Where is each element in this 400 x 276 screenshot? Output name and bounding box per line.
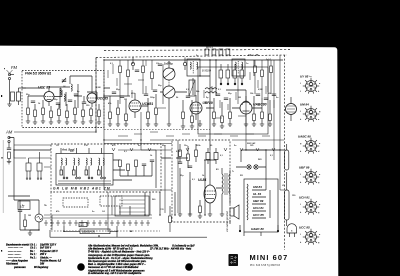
coil group LB <box>73 158 81 179</box>
resistor right of switch <box>119 160 122 167</box>
top B+ rail wire <box>104 59 283 61</box>
punch hole right <box>185 263 193 271</box>
svg-text:UCC 85: UCC 85 <box>299 226 310 230</box>
svg-text:20Ω 3,4F: 20Ω 3,4F <box>247 142 256 145</box>
resistor <box>135 160 138 167</box>
ground <box>28 233 32 235</box>
tube UBF89 <box>190 95 213 120</box>
contact row long bus <box>44 215 152 218</box>
resistor <box>187 154 190 161</box>
resistor <box>98 110 101 117</box>
junction dots bottom row <box>63 230 132 236</box>
tone switch box <box>63 198 88 207</box>
bottom long wire <box>50 226 207 237</box>
wire <box>30 230 39 233</box>
FM oscillator coil <box>60 88 61 95</box>
dial lamp cluster 4x <box>205 46 230 55</box>
mains wires <box>244 232 261 236</box>
resistor mains dropper <box>206 148 218 164</box>
test point <box>277 225 279 232</box>
pinout UCC 85 <box>299 226 321 245</box>
wires AF <box>176 144 284 190</box>
tube UCC85 (FM triode a) <box>38 86 54 107</box>
AM antenna coil cluster <box>14 150 51 179</box>
svg-text:100p: 100p <box>150 97 155 99</box>
main schematic group <box>5 65 108 164</box>
dashed chassis outline top <box>96 55 287 58</box>
dashed chassis outline right <box>284 55 286 250</box>
dial lamps <box>247 165 258 169</box>
coil group KB <box>98 158 106 179</box>
output transformer <box>216 168 230 200</box>
svg-text:1M: 1M <box>124 99 127 101</box>
svg-text:1M: 1M <box>238 97 241 99</box>
small box lower left <box>18 201 30 210</box>
resistor R in FM box <box>27 108 30 115</box>
notes text middle <box>87 245 195 276</box>
svg-text:UL 84: UL 84 <box>253 192 261 196</box>
svg-text:0,5M: 0,5M <box>258 89 263 91</box>
brand logo box <box>229 254 239 266</box>
svg-text:UCC 85: UCC 85 <box>253 213 264 217</box>
wires IF horizontals <box>104 76 262 108</box>
dashed outer boundary top <box>104 50 290 51</box>
ground <box>188 214 192 216</box>
capacitor <box>18 210 22 212</box>
dashed box AF module <box>172 140 230 222</box>
svg-text:UM 84: UM 84 <box>300 103 309 107</box>
wire harness extra <box>14 55 284 232</box>
solid box wave switch lower <box>115 196 149 216</box>
resistor <box>127 164 130 171</box>
fuse vertical <box>285 144 289 170</box>
svg-text:Phil. 643 6.58 Tg 6807/: Phil. 643 6.58 Tg 6807/03 <box>250 265 281 267</box>
svg-text:5Ω: 5Ω <box>240 175 243 177</box>
wire B+ feed FM <box>22 76 92 88</box>
IF transformer can 1 <box>187 59 200 76</box>
tube UCH81 <box>129 93 153 118</box>
capacitor <box>150 160 154 162</box>
svg-text:UCC85: UCC85 <box>98 97 109 101</box>
svg-text:0,5M: 0,5M <box>176 151 181 153</box>
detector module solid box <box>198 53 268 134</box>
hanging component <box>183 58 186 71</box>
svg-text:UCH81: UCH81 <box>142 102 153 106</box>
page crease line left <box>2 140 4 213</box>
ground <box>208 214 212 216</box>
dashed switch lower boundary <box>51 192 160 231</box>
wires IF verticals <box>110 94 270 126</box>
svg-text:4x 0,1: 4x 0,1 <box>206 46 213 49</box>
svg-text:UBF89: UBF89 <box>203 101 213 105</box>
svg-text:UM 84: UM 84 <box>253 185 262 189</box>
svg-text:HF u. ZF: HF u. ZF <box>248 53 259 57</box>
resistor <box>34 110 37 117</box>
svg-text:AM: AM <box>5 130 13 135</box>
svg-text:UBF 89: UBF 89 <box>299 166 310 170</box>
svg-text:UBF 89: UBF 89 <box>253 199 264 203</box>
dashed chassis outline left <box>95 58 97 132</box>
interstage wires FM <box>60 84 97 108</box>
ballast resistor B50029-GN <box>80 229 110 234</box>
resistor <box>82 110 85 117</box>
FM antenna terminal <box>7 65 18 97</box>
dashed box FM tuner FMA 5/2 <box>22 71 104 128</box>
ground <box>178 214 182 216</box>
svg-text:FM: FM <box>11 65 18 70</box>
svg-text:68 Regelung: 68 Regelung <box>34 266 49 269</box>
coil group GR <box>60 158 68 179</box>
AM antenna terminal <box>5 130 13 149</box>
capacitor <box>188 166 192 168</box>
value labels scatter <box>22 55 296 217</box>
component row in module <box>219 70 223 78</box>
coil <box>71 84 72 91</box>
wire <box>28 115 99 123</box>
svg-text:UCH 81: UCH 81 <box>253 206 264 210</box>
resistor <box>8 152 11 159</box>
trimmer capacitor <box>62 78 66 83</box>
svg-text:UABC80: UABC80 <box>253 103 267 107</box>
resistor lower mid <box>169 206 172 232</box>
legend table bottom left <box>5 244 62 269</box>
pinout UCH 81 <box>299 196 321 215</box>
wire <box>28 90 62 97</box>
capacitor <box>178 162 182 164</box>
tuning gang section 1 <box>163 62 175 81</box>
coil group MB <box>85 158 93 179</box>
margin specks <box>1 68 5 252</box>
test point <box>239 225 241 232</box>
VDR ballast vertical <box>285 172 290 226</box>
heater wire <box>252 190 270 218</box>
svg-text:B·50034: B·50034 <box>202 70 212 73</box>
ground <box>220 214 224 216</box>
solid box coil pack <box>56 154 113 186</box>
svg-text:GR LB MB KB2 AB1 TM: GR LB MB KB2 AB1 TM <box>53 186 111 190</box>
resistor <box>24 220 27 227</box>
hanging component <box>131 58 134 71</box>
mains plug <box>287 224 297 237</box>
svg-text:von außen gesehen: von außen gesehen <box>226 210 229 232</box>
wire switch unit feeds <box>61 148 132 180</box>
tube UM84 magic eye <box>286 97 297 121</box>
punch hole left <box>77 263 85 271</box>
capacitor <box>82 102 86 104</box>
phono pickup <box>35 200 43 230</box>
svg-text:2x0,1: 2x0,1 <box>266 59 272 61</box>
svg-text:UCC 85: UCC 85 <box>38 86 50 90</box>
svg-text:UABC 80: UABC 80 <box>251 227 264 231</box>
resistor <box>74 108 77 115</box>
svg-text:FMA 5/2 950W B1: FMA 5/2 950W B1 <box>25 72 52 76</box>
capacitor cluster IF <box>112 64 276 100</box>
ground <box>198 216 202 218</box>
svg-text:Ω aufeinander ang. mit 5 Ω und: Ω aufeinander ang. mit 5 Ω und NF-maßgle… <box>87 272 142 275</box>
wire <box>180 168 222 214</box>
resistor <box>195 150 198 157</box>
svg-text:ZF: FM 10,7 MHz · AM 468 kHz ·: ZF: FM 10,7 MHz · AM 468 kHz · Netz <box>149 248 192 251</box>
capacitor AM input <box>7 148 11 150</box>
svg-text:UY 85: UY 85 <box>300 75 309 79</box>
wire vertical feeds <box>210 60 268 150</box>
tuning gang section 2 <box>163 80 175 98</box>
wire <box>8 150 39 230</box>
capacitor <box>68 100 72 102</box>
coil IF3 <box>205 88 217 93</box>
heater chain coil left <box>247 184 248 220</box>
svg-text:gemessen: gemessen <box>13 266 26 269</box>
switch contact bus <box>58 181 111 183</box>
interstage coil <box>64 94 65 101</box>
svg-text:1M: 1M <box>28 215 31 217</box>
switch part small box <box>79 223 87 228</box>
svg-text:MINI 607: MINI 607 <box>250 253 289 262</box>
svg-text:Tr: Tr <box>232 171 234 173</box>
resistor <box>42 108 45 115</box>
contact symbols row <box>44 220 150 226</box>
test point tick row <box>112 148 275 151</box>
svg-text:Pa 2 :: Pa 2 : <box>30 256 37 259</box>
capacitor <box>31 101 35 103</box>
resistor <box>50 111 53 118</box>
resistor AF <box>179 150 182 157</box>
IF transformer can 2 <box>232 59 245 76</box>
pinout UABC 80 <box>298 135 321 154</box>
wires bottom verticals <box>120 160 205 215</box>
heater chain labels <box>251 185 264 231</box>
resistor cathode <box>199 206 202 213</box>
interstage cap <box>74 94 78 96</box>
wire <box>199 200 201 216</box>
FM input transformer <box>11 88 27 105</box>
resistor network IF area <box>109 66 273 123</box>
wires right of switch <box>120 150 171 188</box>
tube UABC80 <box>240 96 267 120</box>
ground <box>7 162 11 164</box>
pinout UM 84 <box>300 103 321 122</box>
heater chain box <box>244 179 278 232</box>
ground row IF <box>108 124 272 128</box>
tube UCC85 (FM triode b) <box>87 88 108 107</box>
ground row FM box <box>26 121 101 124</box>
IF coil narrow can <box>189 80 195 96</box>
svg-text:0,5M: 0,5M <box>96 87 101 89</box>
resistor <box>58 109 61 116</box>
svg-text:i.c.: i.c. <box>309 76 312 78</box>
wire <box>9 138 51 162</box>
wire <box>9 97 11 104</box>
resistor <box>66 111 69 118</box>
stray wiring texture <box>108 60 274 136</box>
svg-text:UCH 81: UCH 81 <box>299 196 310 200</box>
speaker <box>230 200 239 224</box>
pinout UY 85 <box>300 75 321 94</box>
pinout UBF 89 <box>299 166 321 185</box>
ground <box>7 104 11 106</box>
tone switch box2 <box>100 196 122 206</box>
tube UL84 <box>204 178 216 210</box>
capacitor <box>142 164 146 166</box>
wires tube drops to ground row <box>28 96 99 111</box>
svg-text:UL84: UL84 <box>198 178 206 182</box>
resistor <box>90 109 93 116</box>
capacitor <box>56 103 60 105</box>
dashed box band switch unit <box>51 144 161 192</box>
svg-text:UABC 80: UABC 80 <box>298 135 311 139</box>
wire gang <box>168 62 170 104</box>
